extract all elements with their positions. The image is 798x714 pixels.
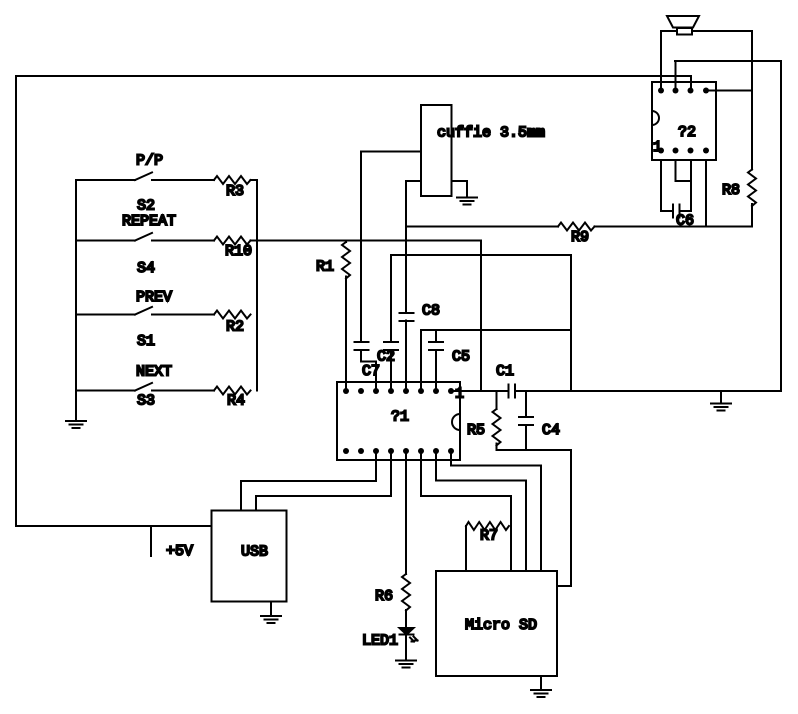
capacitor C4	[519, 417, 533, 425]
svg-text:Micro SD: Micro SD	[465, 617, 537, 634]
ground LED	[396, 661, 416, 668]
svg-text:R6: R6	[375, 588, 393, 605]
wire S1 to R2	[152, 314, 214, 316]
wire output right	[515, 390, 781, 392]
wire R9 right	[595, 226, 753, 228]
wire S1 left	[76, 314, 135, 316]
wire right border	[675, 61, 781, 391]
wire C7 to pin3	[361, 350, 376, 391]
wire jack left lead to C8 column	[406, 181, 421, 313]
wire R5 top	[496, 391, 498, 409]
wire ?2 pin6 jog	[676, 160, 692, 181]
wire USB ground stem	[270, 602, 272, 617]
wire C5 to pin7	[435, 350, 437, 391]
wire pin13 to R6	[405, 451, 407, 574]
svg-text:C7: C7	[362, 363, 380, 380]
wire pin16 to SD	[451, 451, 541, 571]
wire C4 top	[525, 391, 527, 417]
svg-text:C2: C2	[377, 349, 395, 366]
diode LED1 cathode bar	[400, 634, 414, 636]
connector Micro SD body	[436, 571, 557, 676]
resistor R7	[466, 522, 509, 530]
capacitor C1	[509, 385, 516, 398]
svg-text:?1: ?1	[391, 409, 409, 426]
wire ?2 pin4 right	[706, 90, 752, 92]
wire ?2 pin5 down	[661, 160, 673, 211]
wire ?2 pin8 down	[705, 160, 707, 227]
wire R7 left to SD	[465, 526, 467, 571]
svg-text:USB: USB	[241, 544, 268, 561]
wire ?2 pin2 to right border	[675, 61, 677, 91]
wire R1 to pin1	[345, 277, 347, 392]
svg-text:R1: R1	[316, 259, 334, 276]
wire SD ground stem	[540, 676, 542, 690]
svg-text:LED1: LED1	[362, 633, 398, 650]
connector USB body	[212, 511, 287, 602]
wire ?2 pin7 down	[680, 160, 692, 211]
capacitor C5	[429, 342, 443, 350]
wire S2 left	[76, 179, 135, 181]
wire pin12 to USB	[256, 451, 391, 511]
svg-text:C6: C6	[676, 213, 694, 230]
wire +5V top/left border	[16, 76, 691, 526]
wire S4 left	[76, 240, 135, 242]
wire R1 top	[345, 241, 347, 243]
wire C5 top	[435, 330, 437, 342]
IC ?2 notch	[652, 111, 659, 125]
wire pin6 loop	[421, 330, 571, 391]
wire switch left bus	[75, 180, 77, 421]
resistor R2	[214, 311, 251, 319]
speaker body	[677, 28, 692, 35]
resistor R5	[493, 409, 501, 446]
switch S3 blade	[135, 383, 152, 391]
svg-text:R2: R2	[226, 319, 244, 336]
wire R6 to LED	[405, 610, 407, 628]
wire R9 left	[406, 226, 558, 228]
svg-text:PREV: PREV	[136, 289, 172, 306]
wire R8 bottom	[751, 204, 753, 227]
svg-text:R3: R3	[226, 183, 244, 200]
svg-text:NEXT: NEXT	[136, 364, 172, 381]
wire speaker right lead	[692, 31, 752, 170]
svg-text:cuffie 3.5mm: cuffie 3.5mm	[437, 125, 545, 142]
wire switch right bus	[256, 180, 258, 391]
svg-text:S3: S3	[137, 393, 155, 410]
wire S2 to R3	[152, 179, 214, 181]
wire pin14 to SD	[421, 451, 511, 571]
resistor R3	[214, 176, 251, 184]
svg-text:REPEAT: REPEAT	[122, 213, 176, 230]
svg-text:?2: ?2	[678, 124, 696, 141]
resistor R10	[214, 237, 251, 245]
wire jack tip to C7	[361, 152, 421, 343]
wire C8 to pin5	[405, 321, 407, 392]
svg-text:P/P: P/P	[136, 153, 163, 170]
IC ?2 body	[652, 82, 716, 160]
svg-text:S1: S1	[137, 333, 155, 350]
resistor R8	[748, 170, 756, 207]
svg-text:C1: C1	[496, 363, 514, 380]
wire speaker left lead	[661, 31, 677, 91]
wire pin11 to USB	[241, 451, 376, 511]
resistor R1	[342, 242, 350, 279]
diode LED1	[400, 628, 414, 635]
svg-text:R10: R10	[225, 243, 252, 260]
capacitor C7	[355, 342, 369, 350]
switch S2 blade	[135, 172, 152, 180]
switch S4 blade	[135, 233, 152, 241]
IC ?1 body	[337, 382, 460, 460]
svg-text:C8: C8	[422, 303, 440, 320]
wire R5 bottom	[497, 444, 572, 587]
diode LED1 arrows	[410, 637, 418, 642]
IC ?1 notch	[452, 414, 460, 430]
wire R10 row to C1 node	[251, 241, 482, 392]
wire S3 left	[76, 390, 135, 392]
wire jack right lead	[452, 181, 468, 198]
wire +5V stub	[150, 526, 152, 556]
wire R3 to bus	[251, 179, 258, 181]
svg-text:+5V: +5V	[166, 543, 193, 560]
svg-text:C5: C5	[452, 349, 470, 366]
connector cuffie 3.5mm jack	[421, 105, 452, 196]
wire ?2 pin3 to top border	[690, 76, 692, 91]
svg-text:R5: R5	[467, 422, 485, 439]
svg-text:S4: S4	[137, 260, 155, 277]
resistor R9	[558, 223, 595, 231]
wire C4 bottom	[525, 425, 527, 450]
IC ?1 bottom pins	[343, 448, 454, 454]
capacitor C6	[673, 205, 680, 218]
svg-text:R9: R9	[571, 229, 589, 246]
resistor R4	[214, 387, 251, 395]
IC ?1 top pins	[343, 388, 454, 394]
wire C2 top loop	[391, 255, 571, 391]
capacitor C2	[384, 342, 398, 350]
wire S4 to R10	[152, 240, 214, 242]
wire S3 to R4	[152, 390, 214, 392]
ground USB	[261, 616, 281, 623]
ground output rail	[711, 404, 731, 411]
ground jack	[457, 198, 477, 205]
svg-text:R4: R4	[227, 393, 245, 410]
IC ?2 bottom pins	[658, 148, 709, 154]
wire LED to ground	[405, 635, 407, 661]
speaker horn	[667, 16, 699, 28]
svg-text:1: 1	[455, 386, 464, 403]
ground Micro SD	[531, 690, 551, 697]
wire pin15 to SD	[436, 451, 526, 571]
resistor R6	[402, 574, 410, 611]
switch S1 blade	[135, 307, 152, 315]
svg-text:C4: C4	[542, 422, 560, 439]
wire output gnd stem	[720, 391, 722, 404]
IC ?2 top pins	[658, 88, 709, 94]
capacitor C8	[400, 313, 414, 321]
svg-text:R7: R7	[480, 528, 498, 545]
svg-text:R8: R8	[722, 182, 740, 199]
wire C2 to pin4	[390, 350, 392, 391]
wire pin8 output	[451, 390, 509, 392]
svg-text:S2: S2	[137, 198, 155, 215]
ground switch bus	[66, 421, 86, 428]
